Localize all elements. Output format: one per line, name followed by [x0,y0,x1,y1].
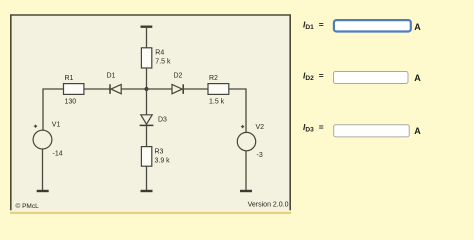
resistor R4 [141,48,171,68]
svg-text:D1: D1 [107,73,116,80]
bottom gold strip [10,210,291,214]
wire: R4 to junction node [146,68,148,89]
wire: V1 to left ground [42,149,44,191]
label I_D2 [303,70,324,82]
label I_D3 [303,122,324,134]
resistor R2 [208,75,229,106]
wire: R2 to right corner down to V2 [229,89,246,133]
svg-text:R4: R4 [155,50,164,57]
diode D1 (cathode left) [107,73,122,94]
svg-text:A: A [414,126,421,136]
svg-text:ID2=: ID2= [303,70,324,82]
voltage source V1 [33,122,63,158]
voltage source V2 [237,124,264,159]
wire: D3 to R3 [146,125,148,146]
svg-text:Version 2.0.0: Version 2.0.0 [248,202,289,209]
svg-text:V2: V2 [256,124,265,131]
label I_D1 [303,19,324,31]
unit A for I_D2 [414,73,421,83]
junction node [145,87,149,91]
unit A for I_D1 [414,22,421,32]
input I_D2 [334,72,409,84]
version text [248,202,289,209]
input I_D3 [334,125,410,137]
wire: junction down to D3 [146,89,148,115]
unit A for I_D3 [414,126,421,136]
svg-text:© PMcL: © PMcL [16,202,40,210]
wire: D1 to junction [121,88,146,90]
svg-text:R2: R2 [209,75,218,82]
wire: R3 to middle ground [146,166,148,191]
ground (middle) [141,190,153,192]
svg-text:1.5 k: 1.5 k [209,99,225,106]
svg-text:R3: R3 [155,149,164,156]
wire: D2 to R2 [183,88,208,90]
svg-text:-3: -3 [257,152,263,159]
svg-text:A: A [414,22,421,32]
svg-text:130: 130 [65,99,77,106]
ground (left) [37,190,49,192]
resistor R1 [64,75,84,106]
resistor R3 [141,147,170,167]
wire: junction to D2 [147,88,173,90]
schematic panel background [10,15,291,212]
svg-text:3.9 k: 3.9 k [155,158,171,165]
svg-text:V1: V1 [52,122,61,129]
svg-text:7.5 k: 7.5 k [155,59,171,66]
supply terminal bar (top) [141,26,153,28]
svg-text:-14: -14 [53,151,63,158]
input I_D1 (focused) [334,20,411,31]
diode D2 (cathode right) [172,73,183,94]
svg-text:D3: D3 [158,117,167,124]
svg-text:ID3=: ID3= [303,122,324,134]
wire: V2 to right ground [245,151,247,191]
ground (right) [240,190,252,192]
wire: terminal to R4 [146,27,148,48]
wire: left corner to R1 [43,89,64,131]
diode D3 (cathode down) [140,115,167,126]
svg-text:A: A [414,73,421,83]
svg-text:D2: D2 [174,73,183,80]
copyright text [16,202,40,210]
svg-text:R1: R1 [65,75,74,82]
wire: R1 to D1 [84,88,110,90]
svg-text:ID1=: ID1= [303,19,324,31]
